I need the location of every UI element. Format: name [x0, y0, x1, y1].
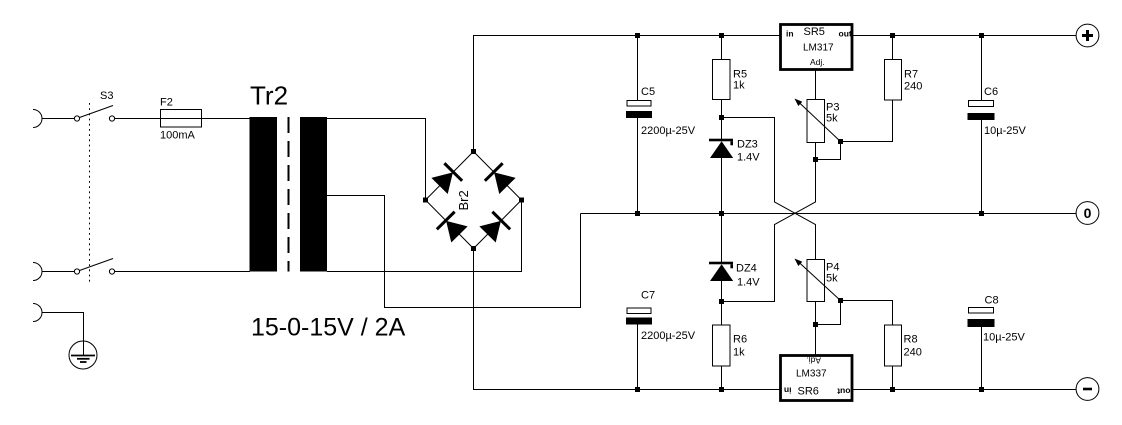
junction P4 bottom node	[813, 322, 818, 327]
value DZ3	[737, 152, 760, 164]
value R7	[904, 81, 922, 93]
pin label out SR5	[839, 29, 852, 39]
pin label out SR6	[837, 387, 850, 397]
svg-text:R7: R7	[904, 69, 918, 81]
label C8	[985, 295, 999, 307]
diode Br2 bottom-left	[436, 211, 469, 244]
wire P3 bottom to DZ4 crosslink	[722, 143, 816, 302]
junction bridge right	[519, 198, 524, 203]
wire secondary center tap	[327, 196, 581, 308]
potentiometer P4	[795, 259, 841, 302]
transformer Tr2	[250, 117, 328, 272]
junction negative rail R6	[719, 387, 724, 392]
diode Br2 bottom-right	[479, 211, 512, 244]
wire negative rail	[474, 249, 1077, 390]
label C6	[984, 86, 998, 98]
label SR6	[798, 386, 819, 398]
value R5	[733, 80, 745, 92]
junction bridge left	[423, 198, 428, 203]
svg-text:LM317: LM317	[803, 43, 834, 54]
junction positive rail C5	[635, 33, 640, 38]
svg-text:DZ3: DZ3	[737, 139, 758, 151]
svg-text:C6: C6	[984, 86, 998, 98]
svg-text:15-0-15V / 2A: 15-0-15V / 2A	[251, 314, 406, 342]
switch S3 pole 2	[74, 259, 114, 275]
connector J2 AC input neutral	[33, 263, 42, 281]
switch S3 pole 1	[74, 106, 114, 122]
wire	[115, 271, 251, 273]
junction positive rail C6	[979, 33, 984, 38]
potentiometer P3	[795, 99, 841, 143]
junction P3 bottom node	[813, 157, 818, 162]
capacitor C7	[626, 308, 652, 390]
svg-text:5k: 5k	[826, 113, 838, 125]
junction DZ4 R6 node	[719, 299, 724, 304]
svg-text:Adj.: Adj.	[806, 356, 821, 366]
junction positive rail R7	[890, 33, 895, 38]
svg-text:R6: R6	[733, 334, 747, 346]
label R8	[904, 334, 918, 346]
wire	[42, 313, 84, 342]
svg-text:C7: C7	[641, 290, 655, 302]
wire P4 wiper tie	[816, 301, 841, 325]
resistor R7	[885, 36, 902, 101]
pin label in SR5	[786, 29, 794, 39]
svg-text:F2: F2	[160, 97, 173, 109]
junction bridge top	[471, 149, 476, 154]
wire R7 to P3 wiper	[841, 100, 893, 142]
svg-text:240: 240	[904, 347, 922, 359]
zener diode DZ3	[709, 118, 733, 214]
value 100mA	[160, 130, 196, 142]
pin label Adj SR6	[806, 356, 821, 366]
svg-text:C8: C8	[985, 295, 999, 307]
svg-text:LM337: LM337	[796, 369, 827, 380]
junction negative rail C8	[979, 387, 984, 392]
wire secondary top	[327, 119, 426, 201]
capacitor C6	[968, 36, 995, 214]
svg-text:2200µ-25V: 2200µ-25V	[641, 125, 696, 137]
wire secondary bottom	[327, 200, 522, 272]
junction R5 DZ3 node	[719, 115, 724, 120]
wire P4 bottom to LM337 adj	[815, 302, 817, 355]
connector J3 AC earth	[33, 304, 42, 322]
label R6	[733, 334, 747, 346]
junction 0V rail C6 C8	[979, 211, 984, 216]
svg-text:SR6: SR6	[798, 386, 819, 398]
label P3	[826, 102, 839, 114]
value C8	[983, 332, 1025, 344]
junction 0V rail C5 C7	[635, 211, 640, 216]
capacitor C8	[968, 308, 995, 390]
wire	[42, 271, 75, 273]
junction P3 wiper node	[838, 139, 843, 144]
diode Br2 top-left	[431, 162, 464, 195]
svg-text:Tr2: Tr2	[250, 81, 288, 111]
svg-text:5k: 5k	[826, 273, 838, 285]
svg-text:C5: C5	[641, 86, 655, 98]
resistor R8	[885, 325, 902, 390]
label P4	[826, 262, 839, 274]
label DZ3	[737, 139, 758, 151]
switch S3 linkage	[89, 103, 91, 282]
svg-text:1.4V: 1.4V	[737, 277, 760, 289]
wire	[42, 118, 75, 120]
bridge rectifier Br2 frame	[426, 152, 522, 249]
svg-text:240: 240	[904, 81, 922, 93]
value 15-0-15V / 2A	[251, 314, 406, 342]
ground protective earth	[69, 341, 97, 369]
value C5	[641, 125, 696, 137]
svg-text:in: in	[784, 386, 792, 396]
resistor R6	[713, 302, 731, 390]
value P3	[826, 113, 838, 125]
capacitor C5	[626, 36, 652, 214]
svg-text:1k: 1k	[733, 80, 745, 92]
label SR5	[804, 26, 825, 38]
svg-text:1k: 1k	[733, 347, 745, 359]
svg-text:1.4V: 1.4V	[737, 152, 760, 164]
svg-text:100mA: 100mA	[160, 130, 196, 142]
pin label in SR6	[784, 386, 792, 396]
wire DZ3 to P4 crosslink	[722, 118, 816, 260]
svg-text:out: out	[837, 387, 850, 397]
label R7	[904, 69, 918, 81]
junction negative rail R8	[890, 387, 895, 392]
wire SR5 adj pin	[815, 70, 817, 100]
value LM317	[803, 43, 834, 54]
junction bridge bottom	[471, 246, 476, 251]
terminal 0 output	[1076, 202, 1099, 225]
label Tr2	[250, 81, 288, 111]
junction positive rail R5	[719, 33, 724, 38]
resistor R5	[713, 36, 731, 118]
label S3	[100, 90, 113, 102]
value DZ4	[737, 277, 760, 289]
svg-text:SR5: SR5	[804, 26, 825, 38]
svg-text:R8: R8	[904, 334, 918, 346]
label Br2	[456, 190, 471, 210]
junction 0V rail DZ3 DZ4	[719, 211, 724, 216]
value R6	[733, 347, 745, 359]
label C5	[641, 86, 655, 98]
fuse F2	[161, 110, 202, 128]
junction negative rail C7	[635, 387, 640, 392]
pin label Adj SR5	[810, 57, 825, 67]
zener diode DZ4	[709, 214, 733, 302]
svg-text:Br2: Br2	[456, 190, 471, 210]
value LM337	[796, 369, 827, 380]
svg-text:0: 0	[1084, 205, 1092, 221]
svg-text:DZ4: DZ4	[736, 263, 757, 275]
wire positive rail	[474, 36, 1077, 152]
value C6	[984, 125, 1026, 137]
regulator SR5 LM317	[781, 25, 853, 70]
svg-text:in: in	[786, 29, 794, 39]
regulator SR6 LM337	[781, 356, 853, 401]
label C7	[641, 290, 655, 302]
value C7	[641, 330, 696, 342]
svg-text:10µ-25V: 10µ-25V	[983, 332, 1025, 344]
wire P4 wiper to R8	[841, 301, 893, 326]
label R5	[733, 69, 747, 81]
svg-text:10µ-25V: 10µ-25V	[984, 125, 1026, 137]
connector J1 AC input line	[33, 110, 42, 128]
diode Br2 top-right	[484, 162, 517, 195]
svg-text:S3: S3	[100, 90, 113, 102]
wire 0V rail	[581, 213, 1077, 215]
label DZ4	[736, 263, 757, 275]
terminal + output	[1076, 24, 1099, 47]
label F2	[160, 97, 173, 109]
svg-text:2200µ-25V: 2200µ-25V	[641, 330, 696, 342]
value P4	[826, 273, 838, 285]
svg-text:Adj.: Adj.	[810, 57, 825, 67]
junction P4 wiper node	[838, 298, 843, 303]
wire P3 wiper tie	[816, 142, 841, 160]
wire	[115, 118, 251, 120]
terminal - output	[1076, 378, 1099, 401]
svg-text:out: out	[839, 29, 852, 39]
value R8	[904, 347, 922, 359]
